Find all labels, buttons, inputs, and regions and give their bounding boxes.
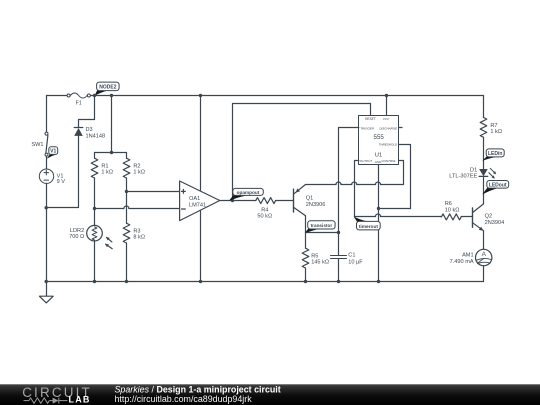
junction dot R1 minus-input bbox=[93, 207, 96, 210]
svg-text:LEDout: LEDout bbox=[489, 182, 507, 188]
wire Q1 collector down bbox=[305, 216, 307, 233]
ammeter AM1 bbox=[450, 249, 492, 265]
resistor R1 1k bbox=[91, 153, 113, 209]
svg-text:D1: D1 bbox=[470, 167, 477, 173]
junction dot op-amp V+ top rail bbox=[199, 94, 202, 97]
svg-text:NODE2: NODE2 bbox=[99, 84, 116, 90]
wire minus input with hop bbox=[95, 208, 124, 210]
wire V1 to bottom rail bbox=[46, 183, 48, 281]
svg-text:F1: F1 bbox=[76, 100, 82, 106]
wire 555 trigger down to collector bus bbox=[339, 128, 359, 233]
svg-text:145 kΩ: 145 kΩ bbox=[311, 260, 329, 266]
resistor R7 1k bbox=[480, 96, 502, 169]
node flag transistor bbox=[305, 221, 335, 233]
svg-text:OA1: OA1 bbox=[189, 196, 200, 202]
svg-text:LM741: LM741 bbox=[189, 202, 206, 208]
svg-text:8 kΩ: 8 kΩ bbox=[133, 235, 145, 241]
svg-text:LEDin: LEDin bbox=[488, 151, 502, 157]
svg-text:opampout: opampout bbox=[237, 190, 260, 195]
svg-text:THRESHOLD: THRESHOLD bbox=[379, 143, 398, 147]
svg-text:AM1: AM1 bbox=[462, 253, 474, 259]
junction dot R3 bottom bbox=[125, 280, 128, 283]
svg-text:V1: V1 bbox=[50, 149, 56, 155]
capacitor C1 10uF bbox=[331, 233, 364, 282]
svg-text:timerout: timerout bbox=[359, 224, 379, 230]
svg-text:LTL-307EE: LTL-307EE bbox=[449, 174, 477, 180]
timer U1 555 bbox=[359, 116, 399, 165]
resistor R2 1k bbox=[123, 153, 145, 192]
junction dot C1 bottom bbox=[337, 280, 340, 283]
wire plus input bbox=[127, 191, 180, 193]
svg-text:DISCHARGE: DISCHARGE bbox=[379, 126, 398, 130]
svg-text:R2: R2 bbox=[133, 163, 140, 169]
resistor R4 50k bbox=[256, 198, 276, 220]
switch SW1 bbox=[31, 132, 48, 156]
wire 555 gnd column to bottom rail bbox=[378, 165, 380, 282]
ground bbox=[39, 282, 53, 303]
voltage source V1 9V bbox=[39, 169, 65, 185]
wire left column from top rail to SW1 bbox=[46, 96, 48, 132]
svg-text:CONTROL: CONTROL bbox=[381, 159, 396, 163]
svg-text:10 kΩ: 10 kΩ bbox=[445, 207, 460, 213]
node flag NODE2 bbox=[95, 82, 120, 96]
wire op-amp V+ and V- column bbox=[200, 96, 202, 282]
junction dot gnd bottom rail bbox=[377, 280, 380, 283]
wire op-amp output bbox=[220, 200, 256, 202]
CircuitLab logo bbox=[22, 385, 92, 405]
svg-text:700 Ω: 700 Ω bbox=[69, 234, 84, 240]
photoresistor LDR2 700 bbox=[69, 225, 112, 248]
svg-text:1 kΩ: 1 kΩ bbox=[133, 170, 145, 176]
wire 555 VCC to top rail bbox=[386, 96, 388, 116]
junction dot V1 bottom rail bbox=[45, 280, 48, 283]
wire collector bus to trigger column bbox=[306, 232, 339, 234]
svg-text:10 µF: 10 µF bbox=[348, 260, 363, 266]
svg-text:R4: R4 bbox=[261, 207, 268, 213]
svg-text:555: 555 bbox=[374, 134, 385, 141]
wire 555 output down bbox=[355, 161, 359, 217]
svg-text:LAB: LAB bbox=[69, 395, 91, 405]
svg-text:R5: R5 bbox=[311, 253, 318, 259]
wire opampout up to 555 reset bbox=[233, 104, 371, 201]
svg-text:Q1: Q1 bbox=[306, 196, 313, 202]
svg-text:R7: R7 bbox=[490, 123, 497, 129]
svg-text:OUTPUT: OUTPUT bbox=[360, 159, 374, 163]
svg-text:R3: R3 bbox=[133, 228, 140, 234]
svg-text:LDR2: LDR2 bbox=[70, 228, 84, 234]
svg-text:1 kΩ: 1 kΩ bbox=[101, 170, 113, 176]
svg-text:1 kΩ: 1 kΩ bbox=[490, 129, 502, 135]
svg-text:1N4148: 1N4148 bbox=[86, 134, 106, 140]
svg-text:50 kΩ: 50 kΩ bbox=[257, 214, 272, 220]
node flag opampout bbox=[229, 188, 263, 200]
svg-text:TRIGGER: TRIGGER bbox=[360, 126, 375, 130]
svg-text:transistor: transistor bbox=[311, 223, 333, 228]
wire timerout to R6 with hop bbox=[355, 216, 376, 218]
svg-text:C1: C1 bbox=[348, 253, 355, 259]
wire R1 to LDR2 bbox=[94, 209, 96, 226]
svg-text:http://circuitlab.com/ca89dudp: http://circuitlab.com/ca89dudp94jrk bbox=[115, 394, 253, 404]
wire NODE2 down to D3 bbox=[79, 96, 95, 128]
node A junction dot V1/D3 bbox=[45, 206, 48, 209]
junction dot LDR2 bottom bbox=[93, 280, 96, 283]
svg-text:2N3904: 2N3904 bbox=[485, 220, 505, 226]
wire 555 discharge stub bbox=[399, 127, 402, 129]
svg-text:R1: R1 bbox=[101, 163, 108, 169]
junction dot NODE2 bbox=[93, 94, 96, 97]
node flag LEDout bbox=[482, 181, 508, 195]
footer bar bbox=[0, 384, 540, 405]
wire Q2 collector up to LED bbox=[483, 177, 485, 204]
junction dot R2 plus-input bbox=[125, 190, 128, 193]
svg-text:RESET: RESET bbox=[365, 117, 377, 121]
junction dot VCC top rail bbox=[385, 94, 388, 97]
svg-text:Q2: Q2 bbox=[485, 214, 492, 220]
wire R4 to Q1 base bbox=[276, 200, 294, 202]
wire Q2 emitter down to AM1 bbox=[483, 231, 485, 250]
wire Q1 emitter to 555 control with hops bbox=[306, 184, 337, 186]
wire LDR2 to bottom rail bbox=[94, 241, 96, 282]
diode D3 1N4148 bbox=[74, 127, 105, 139]
svg-text:U1: U1 bbox=[375, 153, 382, 159]
footer text bbox=[115, 384, 281, 404]
fuse F1 bbox=[67, 93, 90, 106]
junction dot threshold gnd bbox=[377, 207, 380, 210]
wire top rail bbox=[47, 95, 67, 97]
wire bottom rail bbox=[47, 266, 484, 282]
junction dot op-amp V- bottom rail bbox=[199, 280, 202, 283]
svg-text:A: A bbox=[482, 251, 487, 258]
wire 555 threshold to gnd column bbox=[379, 145, 411, 209]
transistor Q2 2N3904 bbox=[473, 204, 505, 231]
svg-text:R6: R6 bbox=[445, 201, 452, 207]
svg-text:9 V: 9 V bbox=[57, 179, 66, 185]
svg-text:GND: GND bbox=[375, 160, 381, 164]
junction dot top rail R1R2 feed bbox=[110, 94, 113, 97]
wire R6 to Q2 base bbox=[461, 216, 472, 218]
junction dot opampout bbox=[231, 199, 234, 202]
LED D1 LTL-307EE bbox=[449, 167, 496, 179]
wire SW1 to V1 bbox=[46, 156, 48, 169]
resistor R6 10k bbox=[441, 201, 461, 220]
node flag LEDin bbox=[482, 149, 504, 161]
wire R1 R2 top bus bbox=[95, 152, 127, 154]
junction dot trigger/C1 bbox=[337, 231, 340, 234]
wire top rail down to R1/R2 top bbox=[111, 96, 113, 153]
junction dot R5 bottom bbox=[304, 280, 307, 283]
node flag V1 bbox=[47, 147, 58, 159]
svg-text:VCC: VCC bbox=[383, 117, 390, 121]
node flag timerout bbox=[354, 217, 381, 230]
svg-text:SW1: SW1 bbox=[31, 142, 43, 148]
wire D3 anode down and left to V1 line bbox=[47, 136, 79, 208]
resistor R3 8k bbox=[123, 192, 145, 282]
op-amp OA1 LM741 bbox=[180, 181, 220, 221]
svg-text:7.490 mA: 7.490 mA bbox=[450, 259, 474, 265]
resistor R5 145k bbox=[302, 233, 329, 282]
svg-text:D3: D3 bbox=[86, 127, 93, 133]
svg-text:2N3906: 2N3906 bbox=[306, 202, 326, 208]
svg-text:Sparkies / Design 1-a miniproj: Sparkies / Design 1-a miniproject circui… bbox=[115, 384, 281, 394]
junction dot R1R2 bus bbox=[110, 151, 113, 154]
transistor Q1 2N3906 bbox=[294, 185, 326, 216]
